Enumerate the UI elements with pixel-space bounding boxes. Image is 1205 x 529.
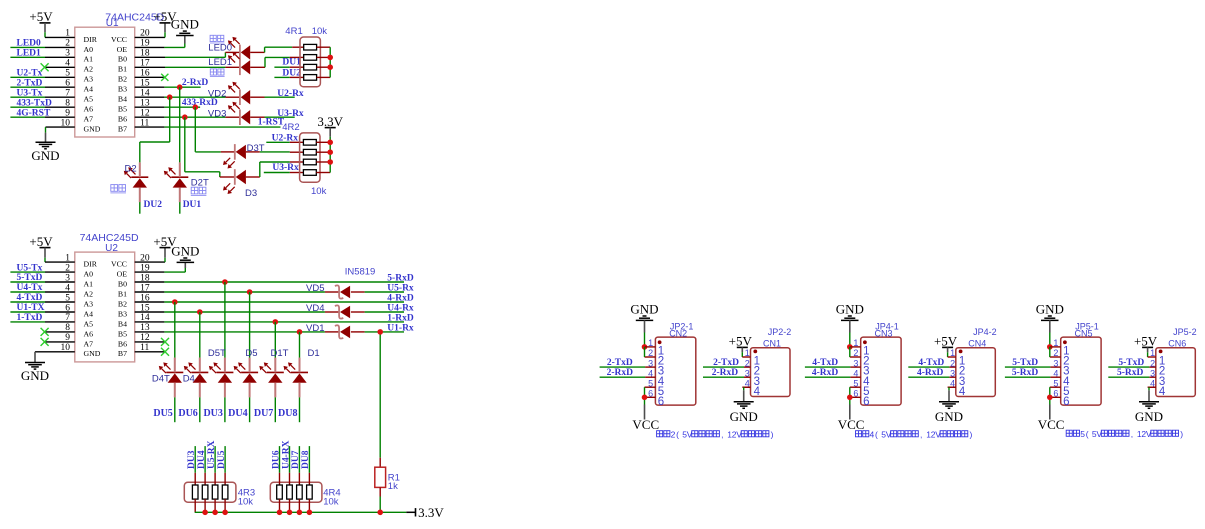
svg-text:A1: A1 xyxy=(84,55,94,64)
node LED0 net label xyxy=(17,39,42,49)
svg-text:JP4-2: JP4-2 xyxy=(973,327,997,337)
wire U1 pin 4 stub (no connect) xyxy=(45,66,75,68)
wire LED0 to 4R1 pin1 xyxy=(250,47,304,52)
pin number 3 inside CN2 xyxy=(658,366,664,378)
svg-text:2: 2 xyxy=(853,348,858,358)
pin stub CN5 pin 4 xyxy=(1050,376,1060,378)
label 红色 above LED0 xyxy=(210,35,225,43)
svg-text:A1: A1 xyxy=(84,279,94,288)
wire U2 pin 17 net U5-Rx xyxy=(135,291,404,293)
pin number 4 inside CN5 xyxy=(1063,376,1070,388)
diode D1T xyxy=(259,358,284,398)
svg-text:CN3: CN3 xyxy=(875,329,893,339)
resistor R1 1k xyxy=(375,467,386,487)
ground GND at U1 pin 19 xyxy=(171,17,199,36)
svg-text:4: 4 xyxy=(959,386,966,398)
svg-text:CN6: CN6 xyxy=(1168,338,1186,348)
svg-text:GND: GND xyxy=(1135,409,1163,424)
wire U2 pin 16 net 4-RxD xyxy=(135,301,404,303)
diode D1 xyxy=(284,358,309,398)
pin stub CN6 pin 3 xyxy=(1149,376,1156,378)
pin number 5 outside CN3 xyxy=(853,378,858,388)
pin number 2 inside CN1 xyxy=(754,366,760,378)
pin number 5 inside CN3 xyxy=(863,386,869,398)
label VD5 designator xyxy=(306,283,324,294)
label VD1 designator xyxy=(306,323,324,334)
connector JP2-2 CN1 body xyxy=(751,348,791,397)
pin number 6 inside CN2 xyxy=(658,396,664,408)
svg-text:3: 3 xyxy=(1150,368,1155,378)
node U2-Tx net label xyxy=(17,69,43,79)
junction dot pin14 xyxy=(167,94,173,100)
wire VD3 to net U3-Rx xyxy=(250,116,295,118)
svg-text:GND: GND xyxy=(935,409,963,424)
node 1-RxD net label xyxy=(387,313,414,323)
svg-text:2: 2 xyxy=(1053,348,1058,358)
node U5-Tx net label xyxy=(17,263,43,273)
wire CN3 pin1-pin2 tie xyxy=(849,347,851,357)
label 1k of R1 xyxy=(388,481,398,492)
wire stub above 4R net DU5 xyxy=(224,446,226,473)
wire U2 pin 13 net U1-Rx xyxy=(135,331,404,333)
junction dot 4R2 row2 xyxy=(327,149,333,155)
svg-text:): ) xyxy=(970,429,973,439)
wire U1 pin 18 to LED0 xyxy=(135,52,240,57)
junction dot rail x=279.5 xyxy=(277,510,283,516)
power 3.3V at 4R2 xyxy=(317,114,343,143)
pin stub CN4 pin 1 xyxy=(948,356,956,358)
pin number 3 inside CN3 xyxy=(863,366,869,378)
power +5V at U1 pin 1 xyxy=(29,9,53,37)
svg-text:U1-TX: U1-TX xyxy=(17,303,45,313)
svg-text:B7: B7 xyxy=(118,349,127,358)
svg-text:B6: B6 xyxy=(118,339,127,348)
wire drop at x=174.8 xyxy=(174,302,176,358)
pin number 2 outside CN1 xyxy=(745,358,750,368)
svg-text:DU8: DU8 xyxy=(278,408,297,419)
resistor network 4R3 10k xyxy=(184,473,236,513)
pin number 3 outside CN4 xyxy=(950,368,955,378)
wire drop at x=249.6 xyxy=(249,292,251,358)
svg-text:U5-Tx: U5-Tx xyxy=(17,263,43,273)
wire drop at x=224.9 xyxy=(224,282,226,358)
pin number 3 outside CN2 xyxy=(648,358,653,368)
wire net 4-TxD to CN3 pin3 xyxy=(805,366,851,368)
wire U1 pin1 to +5V xyxy=(45,36,75,38)
svg-text:5: 5 xyxy=(1053,378,1058,388)
svg-text:5-RxD: 5-RxD xyxy=(1012,368,1039,378)
svg-text:DU5: DU5 xyxy=(153,408,172,419)
pin stub CN2 pin 4 xyxy=(645,376,655,378)
junction dot 1-RxD row xyxy=(273,319,279,325)
node 4-TxD net label xyxy=(17,293,43,303)
junction dot CN3 pin6 xyxy=(847,395,853,401)
pin number 1 outside CN6 xyxy=(1150,348,1155,358)
wire net 433-TxD to U1 pin 8 xyxy=(10,106,74,108)
pin number 4 inside CN6 xyxy=(1159,386,1166,398)
node 2-RxD net label at CN2 xyxy=(607,368,634,378)
svg-text:D3: D3 xyxy=(245,188,257,199)
junction dot 4R2 row3 xyxy=(327,159,333,165)
label D2T designator xyxy=(191,178,209,189)
svg-text:A5: A5 xyxy=(84,95,94,104)
wire net 5-RxD to CN6 pin3 xyxy=(1108,376,1149,378)
wire stub above 4R net DU3 xyxy=(194,446,196,473)
label 10k of 4R3 xyxy=(238,497,254,508)
wire U1 pin 13 net 433-RxD xyxy=(135,106,200,108)
svg-text:DU7: DU7 xyxy=(254,408,273,419)
node DU4 rotated net label xyxy=(197,450,207,469)
pin stub CN1 pin 2 xyxy=(744,366,751,368)
svg-text:GND: GND xyxy=(84,349,101,358)
svg-text:GND: GND xyxy=(31,148,59,163)
node 2-RxD net label xyxy=(182,78,209,88)
wire net 2-TxD to CN2 pin3 xyxy=(600,366,646,368)
svg-text:JP5-2: JP5-2 xyxy=(1173,327,1197,337)
wire net 2-TxD to U1 pin 6 xyxy=(10,86,74,88)
svg-text:2: 2 xyxy=(745,358,750,368)
node 4-RxD net label xyxy=(387,293,414,303)
connector JP5-1 CN5 body xyxy=(1061,337,1101,405)
ground GND at U2 pin 19 xyxy=(171,244,199,263)
wire stub above 4R net U4-RX xyxy=(289,446,291,473)
svg-text:VD1: VD1 xyxy=(306,323,324,334)
label JP5-2 xyxy=(1173,327,1197,337)
svg-text:U4-Rx: U4-Rx xyxy=(387,303,414,313)
svg-text:LED0: LED0 xyxy=(17,39,42,49)
svg-text:4-RxD: 4-RxD xyxy=(917,368,944,378)
node DU5 rotated net label xyxy=(217,450,227,469)
svg-text:GND: GND xyxy=(171,244,199,259)
svg-text:6: 6 xyxy=(1063,396,1069,408)
label JP5-1 xyxy=(1075,322,1099,332)
node 2-TxD net label xyxy=(17,79,43,89)
wire net 4G-RST to U1 pin 9 xyxy=(10,116,74,118)
wire pin13 junction down to D3T xyxy=(195,107,235,152)
svg-text:1: 1 xyxy=(853,338,858,348)
pin stub CN1 pin 1 xyxy=(742,356,750,358)
pin stub CN3 pin 2 xyxy=(850,356,861,358)
op-amp U1 74AHC245D buffer chip body xyxy=(61,12,165,137)
ground GND above CN5 xyxy=(1036,302,1064,347)
svg-text:4-RxD: 4-RxD xyxy=(812,368,839,378)
svg-text:(: ( xyxy=(875,429,878,439)
node DU6 net label xyxy=(178,408,197,419)
wire net U3-Rx to 4R2 pin4 xyxy=(264,172,304,174)
svg-text:4G-RST: 4G-RST xyxy=(17,108,51,118)
svg-text:B2: B2 xyxy=(118,299,127,308)
wire U1 pin 11 net 1-RST xyxy=(135,126,281,128)
svg-text:LED0: LED0 xyxy=(208,43,232,54)
node 5-TxD net label at CN6 xyxy=(1118,358,1144,368)
node U5-RX rotated net label xyxy=(207,440,217,469)
pin number 5 outside CN2 xyxy=(648,378,653,388)
pin number 3 outside CN1 xyxy=(745,368,750,378)
junction dot 4R2 row1 xyxy=(327,140,333,146)
svg-text:2-TxD: 2-TxD xyxy=(607,358,633,368)
wire stub above 4R net DU6 xyxy=(279,446,281,473)
svg-text:A3: A3 xyxy=(84,75,94,84)
pin number 2 outside CN2 xyxy=(648,348,653,358)
diode D5 xyxy=(234,358,259,398)
pin number 2 outside CN5 xyxy=(1053,348,1058,358)
node DU7 rotated net label xyxy=(291,450,301,469)
pin number 4 outside CN5 xyxy=(1053,368,1058,378)
wire U2 pin 20 to +5V xyxy=(135,248,165,263)
pin number 6 inside CN5 xyxy=(1063,396,1069,408)
junction dot 4-RxD row xyxy=(172,299,178,305)
node 4G-RST net label xyxy=(17,108,51,118)
svg-text:4-RxD: 4-RxD xyxy=(387,293,414,303)
svg-text:LED1: LED1 xyxy=(208,57,232,68)
svg-text:5-TxD: 5-TxD xyxy=(17,273,43,283)
pin number 1 inside CN2 xyxy=(658,346,664,358)
svg-text:A7: A7 xyxy=(84,339,94,348)
junction dot rail x=205.1 xyxy=(202,510,208,516)
wire U1 pin 16 stub xyxy=(135,76,165,78)
junction dot pin15 xyxy=(177,84,183,90)
ground GND below U1 pin 10 xyxy=(31,142,59,163)
node DU7 net label xyxy=(254,408,273,419)
junction dot rail x=225.1 xyxy=(222,510,228,516)
ground GND above CN3 xyxy=(836,302,864,347)
wire net U2-Rx to 4R2 pin1 xyxy=(266,141,303,143)
wire D5 lower pin xyxy=(249,397,251,422)
svg-text:DU6: DU6 xyxy=(271,450,281,469)
svg-text:5: 5 xyxy=(853,378,858,388)
label VD2 designator xyxy=(208,88,226,99)
svg-text:DU2: DU2 xyxy=(282,68,301,78)
label D1 designator xyxy=(308,348,320,359)
svg-text:A7: A7 xyxy=(84,115,94,124)
wire stub above 4R net DU7 xyxy=(298,446,300,473)
pin stub CN4 pin 3 xyxy=(949,376,956,378)
wire net DU2 to 4R1 pin4 xyxy=(274,76,303,78)
pin number 6 outside CN5 xyxy=(1053,389,1058,399)
pin number 5 outside CN5 xyxy=(1053,378,1058,388)
wire CN4 pin4 to ground xyxy=(949,387,956,401)
ground GND below CN4 xyxy=(935,402,963,424)
label IN5819 xyxy=(345,266,376,277)
label JP2-2 xyxy=(768,327,792,337)
pin stub CN5 pin 3 xyxy=(1050,366,1060,368)
pin stub CN4 pin 4 xyxy=(948,386,956,388)
junction dot rail x=299.4 xyxy=(297,510,303,516)
wire U1-Rx row down to R1 xyxy=(379,332,381,467)
wire net LED1 to U1 pin 3 xyxy=(10,56,74,58)
diode D2 xyxy=(124,162,149,202)
svg-text:A2: A2 xyxy=(84,65,94,74)
svg-text:3.3V: 3.3V xyxy=(418,505,444,520)
wire U1 pin 15 net 2-RxD xyxy=(135,86,201,88)
svg-text:A0: A0 xyxy=(84,45,94,54)
svg-text:3: 3 xyxy=(853,358,858,368)
pin number 1 inside CN4 xyxy=(959,356,965,368)
svg-text:2-RxD: 2-RxD xyxy=(607,368,634,378)
no-ERC X at U2 pin 8 xyxy=(41,328,49,336)
svg-text:U4-Tx: U4-Tx xyxy=(17,283,43,293)
node U4-Tx net label xyxy=(17,283,43,293)
pin number 1 outside CN3 xyxy=(853,338,858,348)
ground GND below CN6 xyxy=(1135,402,1163,424)
diode D4 xyxy=(184,358,209,398)
pin number 2 inside CN2 xyxy=(658,356,664,368)
svg-text:CN1: CN1 xyxy=(763,338,781,348)
node 433-RxD net label xyxy=(182,98,218,108)
node DU3 net label xyxy=(203,408,222,419)
svg-text:B5: B5 xyxy=(118,329,127,338)
svg-text:4: 4 xyxy=(1053,368,1058,378)
svg-text:VCC: VCC xyxy=(111,260,127,269)
pin number 4 outside CN3 xyxy=(853,368,858,378)
pin stub CN6 pin 2 xyxy=(1149,366,1156,368)
junction dot U1-Rx at R1 top xyxy=(377,329,383,335)
wire U1 pin 10 to ground xyxy=(46,127,75,142)
pin stub CN2 pin 1 xyxy=(645,346,656,348)
svg-text:433-RxD: 433-RxD xyxy=(182,98,218,108)
svg-text:U2: U2 xyxy=(105,243,118,254)
svg-text:B4: B4 xyxy=(118,95,127,104)
wire CN5 pin5-pin6 tie to VCC xyxy=(1049,387,1051,419)
node DU8 net label xyxy=(278,408,297,419)
label 绿色 of D2 xyxy=(110,185,126,193)
pin number 3 inside CN6 xyxy=(1159,376,1165,388)
svg-text:6: 6 xyxy=(863,396,869,408)
svg-text:1: 1 xyxy=(745,348,750,358)
svg-text:B5: B5 xyxy=(118,105,127,114)
junction dot rail at R1 xyxy=(377,510,383,516)
label 4R4 xyxy=(323,488,340,499)
resistor network 4R2 10k xyxy=(300,133,331,182)
svg-text:6: 6 xyxy=(1053,389,1058,399)
pin stub CN5 pin 1 xyxy=(1050,346,1061,348)
svg-text:U2-Rx: U2-Rx xyxy=(277,89,304,99)
node U1-Rx net label xyxy=(387,323,414,333)
svg-text:+5V: +5V xyxy=(729,334,753,349)
node U1-TX net label xyxy=(17,303,45,313)
junction dot rail x=289.5 xyxy=(287,510,293,516)
svg-text:5-TxD: 5-TxD xyxy=(1118,358,1144,368)
node U2-Rx net label at 4R2 xyxy=(272,133,299,143)
caption 串口2 xyxy=(657,429,774,439)
pin stub CN1 pin 3 xyxy=(744,376,751,378)
label 10k of 4R2 xyxy=(311,186,327,197)
diode D4T xyxy=(159,358,184,398)
connector JP2-1 CN2 body xyxy=(655,337,695,405)
wire VD2 to net U2-Rx xyxy=(250,96,295,98)
svg-text:DU5: DU5 xyxy=(217,450,227,469)
node 4-TxD net label at CN3 xyxy=(812,358,838,368)
junction dot rail x=309.4 xyxy=(307,510,313,516)
wire D3 to 4R2 pin3 xyxy=(246,162,304,177)
node U4-RX rotated net label xyxy=(281,440,291,469)
svg-text:VD4: VD4 xyxy=(306,303,324,314)
pin number 3 inside CN4 xyxy=(959,376,965,388)
pin stub CN2 pin 5 xyxy=(645,386,656,388)
svg-text:D4: D4 xyxy=(183,374,195,385)
svg-text:U5-Rx: U5-Rx xyxy=(387,283,414,293)
wire net U2-Tx to U1 pin 5 xyxy=(10,76,74,78)
label D2 designator xyxy=(125,164,137,175)
svg-text:B6: B6 xyxy=(118,115,127,124)
wire drop at x=275.3 xyxy=(274,322,276,358)
svg-text:3: 3 xyxy=(950,368,955,378)
wire net U4-Tx to U2 pin 4 xyxy=(10,291,74,293)
diode D3 xyxy=(223,169,246,194)
node 5-TxD net label xyxy=(17,273,43,283)
caption 串口4 xyxy=(856,429,973,439)
svg-text:U5-RX: U5-RX xyxy=(207,440,217,469)
pin stub CN2 pin 3 xyxy=(645,366,655,368)
svg-text:1: 1 xyxy=(1053,338,1058,348)
pin number 3 inside CN1 xyxy=(754,376,760,388)
svg-text:4: 4 xyxy=(870,429,875,439)
wire D1 lower pin xyxy=(299,397,301,422)
svg-text:U4-RX: U4-RX xyxy=(281,440,291,469)
wire D1T lower pin xyxy=(274,397,276,422)
svg-text:DU4: DU4 xyxy=(197,450,207,469)
node 5-RxD net label at CN6 xyxy=(1117,368,1144,378)
wire stub above 4R net U5-RX xyxy=(214,446,216,473)
svg-text:2-TxD: 2-TxD xyxy=(713,358,739,368)
no-ERC X at U1 pin 16 xyxy=(161,74,168,81)
pin number 2 inside CN5 xyxy=(1063,356,1069,368)
pin number 5 inside CN2 xyxy=(658,386,664,398)
pin number 3 outside CN3 xyxy=(853,358,858,368)
label D5 designator xyxy=(245,348,257,359)
node DU1 net label xyxy=(282,58,301,68)
svg-text:): ) xyxy=(1180,429,1183,439)
label CN3 xyxy=(875,329,893,339)
pin stub CN2 pin 2 xyxy=(645,356,656,358)
label 4R2 xyxy=(282,122,299,133)
wire CN2 pin1-pin2 tie xyxy=(644,347,646,357)
svg-text:B0: B0 xyxy=(118,279,127,288)
pin stub CN3 pin 6 xyxy=(850,396,861,398)
junction dot CN3 pin1 xyxy=(847,344,853,350)
svg-text:+5V: +5V xyxy=(934,334,958,349)
svg-text:6: 6 xyxy=(853,389,858,399)
svg-text:5: 5 xyxy=(648,378,653,388)
svg-text:GND: GND xyxy=(836,302,864,317)
svg-text:2: 2 xyxy=(1150,358,1155,368)
no-ERC X at U2 pin 11 xyxy=(161,348,169,356)
pin stub CN3 pin 4 xyxy=(850,376,860,378)
svg-text:CN4: CN4 xyxy=(968,338,986,348)
svg-text:GND: GND xyxy=(730,409,758,424)
svg-text:DU8: DU8 xyxy=(301,450,311,469)
pin number 2 inside CN4 xyxy=(959,366,965,378)
svg-text:D1: D1 xyxy=(308,348,320,359)
no-ERC X at U2 pin 9 xyxy=(41,338,49,346)
wire net 4-RxD to CN4 pin3 xyxy=(908,376,949,378)
wire U2 pin 12 stub xyxy=(135,341,165,343)
svg-text:1-RxD: 1-RxD xyxy=(387,313,414,323)
label 红色 below LED1 xyxy=(210,69,225,77)
svg-text:2-TxD: 2-TxD xyxy=(17,79,43,89)
svg-text:VCC: VCC xyxy=(838,417,865,432)
wire U2 pin 19 to ground xyxy=(135,262,186,272)
pin number 4 inside CN1 xyxy=(754,386,761,398)
svg-text:A5: A5 xyxy=(84,319,94,328)
svg-text:1: 1 xyxy=(1150,348,1155,358)
svg-text:+5V: +5V xyxy=(29,234,53,249)
svg-text:A4: A4 xyxy=(84,85,94,94)
svg-text:JP2-2: JP2-2 xyxy=(768,327,792,337)
node 4-RxD net label at CN4 xyxy=(917,368,944,378)
node 5-RxD net label xyxy=(387,273,414,283)
ground GND above CN2 xyxy=(630,302,658,347)
